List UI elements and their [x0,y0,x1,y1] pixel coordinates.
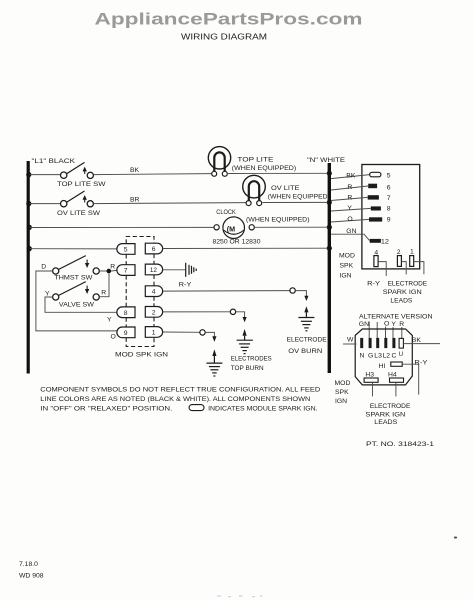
svg-text:Y: Y [107,317,112,324]
label GN [346,228,356,235]
wire row3 (L1 to clock) [30,226,214,228]
label O (pin 9 wire) [111,333,116,340]
svg-text:2: 2 [152,309,156,316]
svg-text:IGN: IGN [335,398,347,405]
svg-text:N: N [360,352,365,359]
label O [347,216,352,223]
label ALTERNATE VERSION [359,314,433,321]
wire terminal to electrode top burn B [205,332,216,342]
label Y (pin 8 wire) [107,317,112,324]
svg-text:BK: BK [130,167,140,174]
module pin 7 [117,265,135,276]
connector pin HI [391,362,402,366]
svg-text:1: 1 [410,249,414,256]
module pin 2 [145,307,162,318]
label THMST SW [54,275,93,282]
label OV LITE / (WHEN EQUIPPED) [268,185,330,201]
svg-text:TOP BURN: TOP BURN [231,365,264,372]
svg-text:R: R [347,184,352,191]
label N G L3 L2 C U (pin names) [360,352,404,360]
svg-text:L2: L2 [383,352,391,359]
label BK (alternate) [412,337,422,344]
label ELECTRODE OV BURN [287,337,327,356]
connector block ALTERNATE (octagon) [355,329,412,385]
wire row3 clock to N bus [254,226,327,228]
svg-text:(M: (M [227,224,235,233]
wire row4 pin 6 to N bus [163,247,328,249]
wire Y to pin 8 [45,297,117,312]
svg-text:BK: BK [346,173,356,180]
label Y (valve) [45,290,50,297]
svg-text:MOD SPK IGN: MOD SPK IGN [115,352,168,359]
label MOD SPK IGN (connector) [339,253,355,280]
wire N bus to pin 6 (R) [331,186,368,190]
wire row2 left (L1 to OV LITE SW) [30,203,61,205]
label MOD SPK IGN (module) [115,352,168,359]
node terminal (top burn B) [200,330,205,335]
label TOP LITE / (WHEN EQUIPPED) [232,156,296,172]
label R (valve) [101,290,106,297]
label ELECTRODE SPARK IGN LEADS (alternate) [365,403,410,426]
module pin 12 [145,264,162,275]
label Y [347,205,352,212]
connector pin 6 [368,184,391,192]
svg-text:1: 1 [152,330,156,337]
module pin 9 [117,327,135,338]
label WD 908 [19,572,44,579]
svg-text:H4: H4 [388,371,397,378]
wire module dashed outline top [126,237,154,244]
module pin 8 [117,307,135,318]
svg-text:LEADS: LEADS [390,297,412,304]
svg-text:R: R [101,290,106,297]
svg-text:R-Y: R-Y [414,359,428,366]
module pin 1 [145,327,162,338]
wire row2 BR segment to lamp [93,203,245,204]
svg-text:12: 12 [150,267,157,274]
svg-text:"N" WHITE: "N" WHITE [307,157,346,164]
wire pin H4 lead [395,382,397,396]
svg-text:MOD: MOD [339,253,355,260]
svg-text:R: R [110,264,115,271]
svg-text:BR: BR [130,197,140,204]
svg-text:SPARK IGN: SPARK IGN [383,289,422,296]
svg-text:ELECTRODES: ELECTRODES [231,355,272,362]
label HI [379,363,386,370]
connector pin L2 [384,338,387,348]
module pin 6 [145,243,162,254]
wire row1 left (L1 to TOP LITE SW) [30,174,61,176]
label W [347,337,354,344]
wire pin HI to R-Y lead [402,364,419,394]
svg-text:VALVE SW: VALVE SW [59,301,95,308]
svg-text:4: 4 [152,289,156,296]
wire module dashed left column [125,254,127,327]
svg-text:12: 12 [381,238,389,245]
label MOD SPK IGN (alternate) [335,380,351,405]
wire module dashed outline bottom [126,337,154,346]
svg-text:Y: Y [45,290,50,297]
svg-text:Y: Y [347,205,352,212]
wire thmst right contact to junction [99,270,106,272]
svg-text:THMST SW: THMST SW [54,275,93,282]
svg-text:AppliancePartsPros.com: AppliancePartsPros.com [95,11,363,29]
node N junction dots [327,171,332,251]
connector block MOD SPK IGN [362,165,420,269]
wire row1 BK segment to lamp [93,174,211,175]
scan speck [454,537,457,539]
label 7.18.0 [19,561,38,568]
wire terminal to electrode OV burn [295,291,308,301]
connector pin 4 (bottom) [374,249,379,266]
wire junction to pin 7 [111,269,117,272]
label "N" WHITE [307,157,346,164]
label ELECTRODES TOP BURN [231,355,272,372]
svg-text:INDICATES MODULE SPARK IGN.: INDICATES MODULE SPARK IGN. [208,405,318,412]
label PT. NO. 318423-1 [366,441,434,448]
connector pin 9 [369,217,391,224]
svg-text:U: U [399,352,403,358]
note text block [40,386,320,412]
switch VALVE SW [53,282,100,301]
svg-text:7: 7 [124,268,128,275]
label H4 [388,371,397,378]
wire row4 (L1 to module pin 5) [30,248,117,250]
svg-text:R: R [347,195,352,202]
module symbol (pill) in note [189,405,204,411]
label (WHEN EQUIPPED) clock [246,217,310,224]
wire pin H3 lead [372,382,374,396]
label R (thmst) [110,264,115,271]
svg-text:IGN: IGN [340,273,352,280]
bus L1 (left vertical feed line) [27,161,30,374]
svg-text:H3: H3 [365,371,374,378]
svg-text:SPK: SPK [340,263,354,270]
svg-text:9: 9 [387,217,391,224]
module pin 5 [117,244,135,255]
wire module dashed right column [153,254,155,327]
label H3 [365,371,374,378]
svg-text:ELECTRODE: ELECTRODE [287,337,327,344]
label R [347,184,352,191]
svg-text:TOP LITE: TOP LITE [237,156,274,163]
svg-text:C: C [392,352,397,359]
svg-text:IN "OFF" OR "RELAXED" POSITION: IN "OFF" OR "RELAXED" POSITION. [40,405,172,412]
electrode top burn A (spark gap + ground) [237,329,253,354]
svg-text:8250 OR 12830: 8250 OR 12830 [213,239,261,246]
svg-text:OV BURN: OV BURN [288,348,322,355]
svg-text:L3: L3 [374,352,382,359]
electrode top burn B (spark gap + ground) [206,349,222,376]
connector pin H3 [364,378,378,382]
connector pin N [360,338,363,348]
label TOP LITE SW [57,181,106,188]
label D [41,264,46,271]
svg-text:9: 9 [124,330,128,337]
svg-text:LEADS: LEADS [374,419,397,426]
svg-text:(WHEN EQUIPPED): (WHEN EQUIPPED) [268,194,330,201]
connector pin H4 [390,378,404,382]
wire pin 2 lead [401,262,406,275]
switch THMST SW [53,256,100,275]
svg-text:"L1" BLACK: "L1" BLACK [32,158,76,165]
logo AppliancePartsPros.com [95,11,363,29]
svg-text:OV LITE: OV LITE [271,185,300,192]
wire pin 2 to terminal [163,311,231,313]
wire N bus to pin 7 (R) [331,197,368,200]
label OV LITE SW [57,210,101,217]
svg-text:8: 8 [124,310,128,317]
scan marks bottom [217,595,263,597]
wire N bus to pin 5 (BK) [331,175,370,179]
svg-text:MOD: MOD [335,380,351,387]
label VALVE SW [59,301,95,308]
label "L1" BLACK [32,158,76,165]
label R-Y (pin 4 wire) [179,282,192,289]
node R junction dot [107,269,112,274]
bus N (right vertical feed line) [328,163,331,373]
switch TOP LITE SW [61,162,94,178]
node L1 junction dots [26,172,32,251]
label GN O Y R (lead colors) [359,321,405,329]
svg-text:SPARK IGN: SPARK IGN [365,411,405,418]
svg-text:BK: BK [412,337,422,344]
svg-text:W: W [347,337,354,344]
connector pin 5 [370,172,391,179]
svg-text:7.18.0: 7.18.0 [19,561,38,568]
svg-text:ALTERNATE VERSION: ALTERNATE VERSION [359,314,433,321]
connector pin 1 (bottom) [410,249,414,267]
note text (continued) [208,405,318,412]
svg-text:8: 8 [387,206,391,213]
connector pin 8 [371,206,391,213]
svg-text:G: G [368,352,373,359]
connector pin C [392,338,395,348]
connector pin 2 (bottom) [397,249,402,267]
wire lead color ticks [369,322,402,339]
wire D to pin 9 [36,271,117,331]
wire pin 1 lead [414,262,424,275]
svg-text:GN: GN [346,228,356,235]
connector pin L3 [376,338,379,348]
svg-text:5: 5 [387,173,391,180]
label R [347,195,352,202]
svg-text:WD 908: WD 908 [19,572,44,579]
module pin 4 [145,286,162,297]
svg-text:7: 7 [387,195,391,202]
svg-text:PT. NO. 318423-1: PT. NO. 318423-1 [366,441,434,448]
wire N bus to pin 8 (Y) [331,208,371,211]
svg-text:2: 2 [397,249,401,256]
label BK [346,173,356,180]
clock motor [214,217,254,239]
wire pin 1 to terminal [163,331,200,333]
connector pin G [369,338,372,348]
svg-text:(WHEN EQUIPPED): (WHEN EQUIPPED) [232,165,296,172]
wire N bus to pin 9 (O) [331,219,369,222]
svg-text:ELECTRODE: ELECTRODE [388,281,428,288]
label BK [130,167,140,174]
svg-text:6: 6 [387,184,391,191]
connector pin 12 [370,238,389,245]
ground (chassis, sideways) [186,263,197,277]
lamp OV LITE [243,175,266,205]
svg-text:HI: HI [379,363,386,370]
label BR [130,197,140,204]
connector pin U [399,338,403,348]
svg-text:SPK: SPK [335,389,349,396]
wire pin 4 R-Y to terminal [163,290,290,293]
wire pin U to BK [403,343,440,345]
svg-text:(WHEN EQUIPPED): (WHEN EQUIPPED) [246,217,310,224]
wire pin 12 to chassis ground [163,269,186,271]
connector pin 7 [368,195,391,202]
lamp TOP LITE [208,147,230,177]
svg-text:OV LITE SW: OV LITE SW [57,210,101,217]
wire row2 lamp to N bus [263,201,328,203]
wire valve right contact up to junction [99,273,109,296]
svg-text:O: O [111,333,116,340]
svg-text:R-Y: R-Y [179,282,192,289]
wire N bus to pin 12 (GN) [331,234,370,240]
svg-text:LINE COLORS ARE AS NOTED (BLAC: LINE COLORS ARE AS NOTED (BLACK & WHITE)… [40,396,310,403]
svg-text:R-Y: R-Y [367,281,381,288]
svg-text:Y: Y [391,321,396,328]
label R-Y ELECTRODE SPARK IGN LEADS [367,281,427,305]
svg-text:TOP LITE SW: TOP LITE SW [57,181,106,188]
switch OV LITE SW [61,191,94,207]
svg-text:COMPONENT SYMBOLS DO NOT REFLE: COMPONENT SYMBOLS DO NOT REFLECT TRUE CO… [40,386,320,393]
wire W to pin N [343,343,357,345]
svg-text:D: D [41,264,46,271]
svg-text:O: O [384,321,389,328]
svg-text:ELECTRODE: ELECTRODE [370,403,411,410]
node terminal (top burn A) [230,309,235,314]
wire row1 lamp to N bus [228,172,328,174]
title WIRING DIAGRAM [181,32,267,41]
label 8250 OR 12830 [213,239,261,246]
label R-Y (alternate) [414,359,428,366]
svg-text:O: O [347,216,352,223]
svg-text:GN: GN [359,321,369,328]
wire terminal to electrode top burn A [236,312,247,323]
svg-text:5: 5 [124,247,128,254]
node terminal (OV burn) [290,288,295,293]
svg-text:CLOCK: CLOCK [216,209,236,216]
svg-text:WIRING DIAGRAM: WIRING DIAGRAM [181,32,267,41]
electrode OV burn (spark gap + ground) [298,306,314,331]
svg-text:6: 6 [152,246,156,253]
label CLOCK [216,209,236,216]
wire pin 4 lead [378,262,386,276]
